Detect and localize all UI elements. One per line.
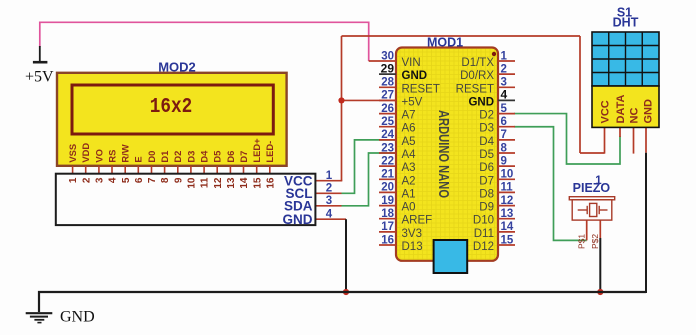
- MOD1 right pin 6 D3: [479, 116, 515, 135]
- svg-text:D0/RX: D0/RX: [460, 70, 494, 82]
- svg-text:D7: D7: [479, 175, 494, 187]
- wire SCL: backpack pin 2 stub red: [315, 192, 341, 194]
- svg-text:AREF: AREF: [402, 215, 433, 227]
- LCD pin 4 RS: [106, 150, 117, 174]
- svg-text:14: 14: [501, 221, 514, 233]
- svg-text:15: 15: [252, 177, 263, 189]
- wire green: MOD1 D3 pin 6 to piezo P$1: [514, 127, 587, 241]
- svg-text:A5: A5: [402, 136, 416, 148]
- svg-text:VDD: VDD: [80, 143, 91, 163]
- svg-text:17: 17: [381, 221, 394, 233]
- LCD pin 15 LED+: [251, 138, 262, 174]
- svg-text:6: 6: [134, 177, 145, 183]
- svg-text:9: 9: [501, 155, 507, 167]
- wire red: piezo P$1 pin stub: [586, 220, 588, 240]
- svg-text:2: 2: [81, 177, 92, 183]
- svg-text:D9: D9: [479, 202, 494, 214]
- MOD1 left pin 30 VIN: [369, 50, 421, 69]
- svg-text:D4: D4: [199, 150, 210, 163]
- svg-text:A4: A4: [402, 149, 417, 161]
- wire red +5V net: down right of MOD1: [579, 36, 581, 153]
- svg-text:D6: D6: [225, 151, 236, 163]
- LCD pin 16 LED-: [264, 141, 275, 174]
- svg-text:6: 6: [501, 116, 507, 128]
- svg-text:4: 4: [108, 177, 119, 183]
- LCD pin 7 D0: [146, 151, 157, 174]
- wire +5V pink: power symbol to MOD1 VIN pin 30: [40, 22, 369, 61]
- svg-text:P$2: P$2: [590, 234, 600, 249]
- svg-text:D3: D3: [479, 123, 494, 135]
- svg-text:GND: GND: [60, 309, 95, 326]
- svg-text:MOD1: MOD1: [427, 36, 463, 50]
- backpack pin 3 SDA: [284, 195, 332, 213]
- svg-text:24: 24: [381, 129, 394, 141]
- svg-text:D0: D0: [146, 151, 157, 163]
- svg-text:GND: GND: [402, 70, 428, 82]
- svg-text:D10: D10: [473, 215, 494, 227]
- svg-text:D7: D7: [238, 151, 249, 163]
- svg-text:13: 13: [226, 177, 237, 189]
- svg-text:14: 14: [239, 177, 250, 189]
- svg-text:7: 7: [501, 129, 507, 141]
- MOD1 right pin 14 D11: [474, 221, 515, 240]
- svg-text:NC: NC: [629, 108, 641, 124]
- svg-text:8: 8: [501, 142, 508, 154]
- junction ground rail / backpack GND: [343, 289, 349, 295]
- svg-text:A7: A7: [402, 110, 416, 122]
- MOD1 right pin 9 D6: [479, 155, 515, 174]
- LCD display window: [72, 85, 273, 134]
- LCD pin 8 D1: [159, 151, 170, 174]
- MOD1 right pin 7 D4: [479, 129, 515, 148]
- svg-text:D1: D1: [159, 151, 170, 163]
- svg-text:10: 10: [187, 177, 198, 189]
- MOD1 right pin 15 D12: [473, 234, 515, 253]
- MOD1 right pin 10 D7: [479, 169, 515, 188]
- svg-text:DHT: DHT: [613, 16, 639, 30]
- svg-text:12: 12: [501, 195, 514, 207]
- svg-text:3V3: 3V3: [402, 228, 422, 240]
- svg-text:LED+: LED+: [251, 138, 262, 163]
- svg-text:9: 9: [173, 177, 184, 183]
- MOD1 right pin 1 D1/TX: [461, 50, 515, 69]
- wire black: DHT GND down to ground rail: [645, 153, 647, 293]
- MOD1 right pin 8 D5: [479, 142, 515, 161]
- svg-text:11: 11: [501, 182, 514, 194]
- MOD1 left pin 17 3V3: [379, 221, 422, 240]
- wire backpack GND pin 4 stub red: [315, 218, 346, 220]
- LCD pin 12 D5: [212, 151, 223, 174]
- MOD1 left pin 29 GND: [379, 61, 427, 82]
- svg-text:D6: D6: [479, 162, 494, 174]
- MOD1 right pin 3 RESET: [456, 77, 515, 96]
- MOD1 USB connector: [434, 240, 468, 273]
- LCD pin 2 VDD: [80, 143, 91, 174]
- MOD1 left pin 16 D13: [379, 234, 423, 253]
- wire ground rail: [39, 292, 646, 312]
- svg-text:5: 5: [121, 177, 132, 183]
- LCD pin 10 D3: [185, 151, 196, 174]
- ground symbol: [26, 313, 53, 322]
- svg-text:+5V: +5V: [25, 69, 54, 86]
- svg-text:D2: D2: [479, 110, 494, 122]
- LCD pin 1 VSS: [67, 144, 78, 174]
- svg-text:16x2: 16x2: [150, 96, 193, 119]
- wire red: backpack VCC pin 1 stub: [315, 180, 342, 182]
- wire red: DHT DATA pin stub: [619, 127, 621, 137]
- svg-text:LED-: LED-: [264, 141, 275, 163]
- wire SDA: backpack pin 3 stub red: [315, 205, 341, 207]
- wire red: piezo P$2 pin stub: [599, 220, 601, 238]
- svg-text:A3: A3: [402, 162, 416, 174]
- junction ground rail / piezo P$2: [597, 289, 603, 295]
- svg-text:+5V: +5V: [402, 96, 423, 108]
- svg-text:12: 12: [213, 177, 224, 189]
- svg-text:RESET: RESET: [402, 83, 440, 95]
- svg-text:28: 28: [381, 77, 394, 89]
- svg-text:VO: VO: [93, 149, 104, 163]
- svg-text:D3: D3: [185, 151, 196, 163]
- svg-text:P$1: P$1: [576, 234, 586, 249]
- svg-text:A1: A1: [402, 188, 416, 200]
- wire black: piezo P$2 down to ground rail: [599, 238, 601, 292]
- svg-text:D5: D5: [212, 151, 223, 163]
- svg-text:GND: GND: [643, 99, 655, 124]
- LCD pin 6 E: [133, 156, 144, 173]
- MOD1 left pin 28 RESET: [379, 77, 440, 96]
- backpack pin 4 GND: [283, 209, 333, 227]
- svg-text:29: 29: [381, 61, 395, 75]
- MOD1 right pin 12 D9: [479, 195, 515, 214]
- wire black: backpack GND down to ground rail: [345, 219, 347, 292]
- svg-text:8: 8: [160, 177, 171, 183]
- LCD pin 13 D6: [225, 151, 236, 174]
- LCD pin 5 R/W: [120, 144, 131, 173]
- svg-text:18: 18: [381, 208, 394, 220]
- backpack pin 2 SCL: [286, 183, 333, 201]
- svg-text:RESET: RESET: [456, 83, 494, 95]
- I2C backpack module box: [56, 174, 316, 225]
- MOD1 left pin 27 +5V: [379, 90, 423, 109]
- svg-text:A6: A6: [402, 123, 416, 135]
- LCD module MOD2 16x2 display body: [57, 73, 287, 166]
- svg-text:2: 2: [326, 183, 332, 195]
- svg-text:5: 5: [501, 103, 508, 115]
- MOD1 body grid texture: [396, 48, 498, 261]
- svg-text:19: 19: [381, 195, 394, 207]
- svg-text:D13: D13: [402, 241, 423, 253]
- svg-text:1: 1: [68, 177, 79, 183]
- svg-text:20: 20: [381, 182, 394, 194]
- svg-text:D4: D4: [479, 136, 494, 148]
- wire SDA green to MOD1 A4 pin 23: [342, 153, 397, 206]
- MOD1 right pin 11 D8: [479, 182, 515, 201]
- piezo buzzer symbol: [569, 197, 614, 220]
- MOD1 right pin 2 D0/RX: [460, 63, 515, 82]
- svg-text:1: 1: [501, 50, 508, 62]
- wire red: stub into MOD1 +5V pin 27: [342, 99, 397, 101]
- svg-text:D12: D12: [473, 241, 494, 253]
- svg-text:VCC: VCC: [600, 100, 612, 123]
- DHT sensor S1 pin label area: [592, 86, 659, 127]
- MOD1 left pin 22 A3: [379, 155, 416, 174]
- svg-text:27: 27: [381, 90, 394, 102]
- svg-text:D8: D8: [479, 188, 494, 200]
- junction +5V net at MOD1 pin 27: [338, 97, 344, 103]
- svg-text:D5: D5: [479, 149, 494, 161]
- svg-text:25: 25: [381, 116, 394, 128]
- svg-text:GND: GND: [468, 96, 494, 108]
- wire red: DHT GND pin stub: [645, 127, 647, 153]
- wire red +5V net horizontal top run to DHT: [342, 35, 581, 37]
- LCD pin 3 VO: [93, 149, 104, 174]
- LCD pin 9 D2: [172, 151, 183, 174]
- svg-text:D2: D2: [172, 151, 183, 163]
- MOD1 left pin 24 A5: [379, 129, 416, 148]
- MOD1 left pin 18 AREF: [379, 208, 432, 227]
- svg-text:VSS: VSS: [67, 144, 78, 163]
- MOD1 left pin 21 A2: [379, 169, 416, 188]
- svg-text:A2: A2: [402, 175, 416, 187]
- svg-text:DATA: DATA: [615, 95, 627, 124]
- svg-text:15: 15: [501, 234, 514, 246]
- svg-text:16: 16: [381, 234, 394, 246]
- svg-text:VIN: VIN: [402, 57, 421, 69]
- MOD1 right pin 13 D10: [473, 208, 515, 227]
- wire green: MOD1 D2 pin 5 to DHT DATA: [514, 114, 620, 164]
- MOD1 left pin 23 A4: [379, 142, 416, 161]
- MOD1 left pin 20 A1: [379, 182, 416, 201]
- MOD1 right pin 4 GND: [468, 88, 515, 109]
- svg-text:13: 13: [501, 208, 514, 220]
- svg-text:2: 2: [501, 63, 507, 75]
- svg-text:PIEZO: PIEZO: [573, 181, 611, 195]
- svg-text:4: 4: [501, 88, 508, 102]
- Arduino Nano module MOD1 body: [396, 48, 498, 261]
- svg-text:4: 4: [326, 209, 333, 221]
- backpack pin 1 VCC: [284, 170, 333, 188]
- wire red: DHT VCC pin drop: [604, 127, 606, 154]
- MOD1 left pin 25 A6: [379, 116, 416, 135]
- svg-text:RS: RS: [106, 150, 117, 163]
- svg-text:10: 10: [501, 169, 514, 181]
- svg-text:1: 1: [326, 170, 333, 182]
- svg-text:16: 16: [265, 177, 276, 189]
- MOD1 left pin 26 A7: [379, 103, 416, 122]
- svg-text:A0: A0: [402, 202, 416, 214]
- svg-text:21: 21: [381, 169, 394, 181]
- svg-text:D11: D11: [474, 228, 494, 240]
- power +5V symbol: [33, 46, 48, 62]
- svg-text:GND: GND: [283, 212, 313, 227]
- wire red +5V net vertical: backpack VCC up past MOD1 +5V pin to top: [341, 36, 343, 181]
- svg-text:22: 22: [381, 155, 394, 167]
- MOD1 left pin 19 A0: [379, 195, 416, 214]
- svg-text:ARDUINO NANO: ARDUINO NANO: [435, 110, 452, 198]
- svg-text:26: 26: [381, 103, 394, 115]
- wire red +5V net: across to DHT VCC pin: [580, 152, 605, 154]
- svg-text:3: 3: [95, 177, 106, 183]
- LCD pin 11 D4: [199, 150, 210, 174]
- wire red: DHT NC pin stub (unconnected): [633, 127, 635, 154]
- svg-text:R/W: R/W: [120, 144, 131, 162]
- svg-text:MOD2: MOD2: [158, 60, 196, 75]
- svg-text:7: 7: [147, 177, 158, 183]
- DHT sensor S1 grid body: [592, 32, 659, 86]
- svg-text:E: E: [133, 156, 144, 162]
- wire SCL green to MOD1 A5 pin 24: [342, 140, 397, 193]
- svg-text:D1/TX: D1/TX: [461, 57, 494, 69]
- MOD1 pin 1 marker dot: [492, 52, 496, 56]
- svg-text:23: 23: [381, 142, 394, 154]
- MOD1 right pin 5 D2: [479, 103, 515, 122]
- svg-text:11: 11: [200, 177, 211, 188]
- LCD pin 14 D7: [238, 151, 249, 174]
- svg-text:3: 3: [326, 195, 332, 207]
